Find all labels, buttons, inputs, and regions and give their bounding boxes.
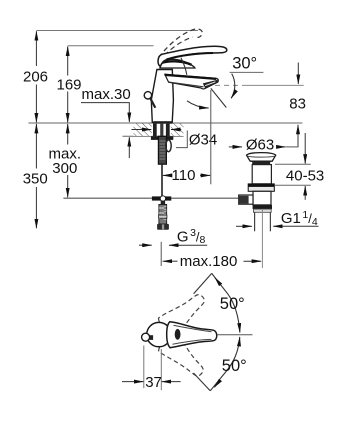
wire: O63 line tail to 83 line [286, 146, 298, 148]
leader O34 [176, 131, 187, 148]
G3/8 nut highlight [162, 224, 164, 229]
svg-text:50°: 50° [220, 295, 245, 313]
wire: spout level dashed line [215, 84, 242, 86]
dimension max.300 upper arrow at deck [67, 124, 69, 145]
drain upper body [252, 165, 271, 184]
dimension 169 upper arrow [67, 47, 69, 76]
lever plan top bevel line [174, 325, 212, 331]
handle body plan circle [147, 322, 171, 346]
drain collar dark top [248, 184, 274, 187]
wire: extension line top of lever (169 ref) [68, 45, 154, 47]
leader G3/8 left arrow [169, 244, 207, 246]
wire: aerator vertical reference (110 ref) [210, 90, 212, 184]
wire: 30deg slant direction line [211, 88, 227, 107]
dimension 110 right arrow [200, 174, 210, 176]
drain collar [248, 184, 274, 191]
drain lower body [253, 191, 271, 205]
tailpipe right wall [269, 212, 271, 231]
dimension max.300 lower arrow [67, 175, 69, 197]
svg-text:206: 206 [23, 69, 48, 86]
leader G1 1/4 right-pointing arrow [236, 225, 252, 227]
leader G1 1/4 left arrow [273, 225, 318, 227]
50deg upper apex arrow [215, 278, 221, 285]
drain side port dark [239, 196, 249, 204]
handle lever plan [167, 322, 217, 348]
hose loop [166, 140, 171, 152]
dimension 206 upper arrow [35, 31, 37, 66]
braided hose texture [159, 206, 167, 220]
rod tee block [152, 196, 171, 200]
svg-text:37: 37 [145, 374, 162, 391]
drain side port [239, 195, 253, 204]
pop-up knob stem [150, 98, 155, 108]
wire: 30deg label underline [230, 71, 264, 73]
dimension arrow hole left (O34) [132, 129, 152, 131]
svg-text:Ø34: Ø34 [189, 131, 217, 148]
dimension O63 right arrow [278, 146, 286, 148]
dimension arrow hole right (O34) [171, 129, 181, 131]
svg-text:max.180: max.180 [180, 253, 238, 270]
dimension 40-53 lower arrow [304, 186, 306, 200]
aerator [203, 80, 219, 89]
50deg lower arc to axis with arrow [210, 337, 240, 391]
wire: 40-53 upper extension line [275, 163, 311, 165]
dashed lever rotated down 48deg [156, 330, 211, 383]
flow arc arrow [187, 101, 209, 108]
dimension O63 left arrow [229, 146, 242, 148]
shank thread lines [160, 141, 166, 159]
svg-text:G11/4: G11/4 [281, 209, 318, 228]
horizontal rod left [63, 197, 151, 199]
50deg lower leg along dashed lever [194, 373, 211, 391]
braided hose [159, 205, 167, 225]
drain flange shadow band [252, 161, 270, 164]
svg-text:110: 110 [172, 167, 196, 184]
drain coupling ring dark [253, 205, 272, 209]
dimension 83 lower arrow [297, 125, 299, 148]
lever back knob dark edge [158, 56, 159, 65]
threaded shank [158, 136, 166, 164]
wire: swivel axis line [217, 334, 253, 336]
dimension 37 left arrow [122, 381, 143, 383]
dimension 350 upper arrow at deck [35, 124, 37, 169]
dimension 206 lower arrow [35, 85, 37, 123]
svg-text:max.30: max.30 [82, 86, 131, 103]
drain centerline [261, 209, 263, 268]
deck top line [28, 122, 302, 124]
drain coupling ring light [253, 209, 271, 212]
hose neck below tee [161, 201, 165, 205]
lever plan bottom bevel line [173, 339, 212, 344]
wire: faucet centerline tick [160, 242, 162, 266]
faucet body column [151, 70, 173, 123]
50deg upper arc to axis with arrow [212, 273, 240, 332]
leader max.30 with down arrow to deck [81, 103, 129, 122]
svg-text:G3/8: G3/8 [177, 227, 206, 246]
svg-text:Ø63: Ø63 [246, 137, 274, 154]
drain flange [247, 153, 276, 162]
50deg upper leg along dashed lever [194, 273, 212, 293]
spout wedge [165, 74, 219, 89]
wire: extension line top of raised handle (206 ref) [36, 30, 198, 32]
dimension 83 upper arrow [297, 63, 299, 85]
svg-text:169: 169 [57, 77, 82, 94]
deck hatch left of hole [134, 124, 152, 136]
horizontal rod right [171, 197, 239, 199]
dimension max.30 lower arrow below deck [128, 137, 130, 158]
deck hatch right of hole [171, 124, 184, 136]
dimension max.180 left arrow [163, 260, 178, 262]
dimension 350 lower arrow [35, 187, 37, 228]
50deg lower apex arrow [214, 380, 220, 387]
svg-text:30°: 30° [232, 54, 257, 72]
dimension 40-53 upper arrow [304, 133, 306, 164]
dimension 110 left arrow [163, 174, 171, 176]
deck bottom line [123, 135, 184, 137]
aerator glint [205, 82, 215, 86]
leader G3/8 right-pointing arrow [139, 244, 152, 246]
rod tee ball [160, 196, 165, 201]
pop-up knob [144, 92, 151, 99]
svg-text:300: 300 [52, 160, 77, 177]
dimension max.180 right arrow [244, 260, 262, 262]
wire: 37 right extension line [160, 349, 162, 390]
locknut below deck [151, 136, 173, 140]
knob stem plan [150, 335, 154, 340]
shank center stud in hole [160, 124, 163, 137]
svg-text:350: 350 [23, 171, 48, 188]
drain flange inner line [248, 155, 275, 158]
dashed raised handle inner line [165, 37, 193, 56]
shank left wall in hole [153, 124, 157, 137]
wire: spout level line [242, 84, 304, 86]
faucet lever underside shade [167, 53, 214, 59]
faucet lever [158, 46, 227, 66]
dashed lever rotated up 48deg [156, 287, 211, 340]
wire: 37 left extension line [143, 346, 145, 389]
faucet dome shadow band [161, 61, 192, 65]
knob plan circle [142, 333, 150, 341]
svg-text:83: 83 [289, 96, 306, 113]
base bottom dark band [153, 121, 172, 124]
faucet dome cap [160, 59, 195, 68]
shank right wall in hole [166, 124, 170, 137]
spout underside line [169, 82, 204, 87]
svg-text:50°: 50° [222, 357, 247, 375]
dimension 37 right arrow [162, 381, 181, 383]
neck junction line [181, 58, 187, 75]
pop-up vertical rod [161, 164, 163, 196]
dimension 169 lower arrow [67, 92, 69, 123]
G3/8 nut [157, 224, 169, 230]
arc 30deg with arrow [231, 74, 235, 99]
spout top shadow line [165, 75, 217, 79]
svg-text:40-53: 40-53 [286, 167, 324, 184]
wire: 40-53 lower extension line [275, 184, 311, 186]
lever plan dark oval [175, 329, 181, 340]
dashed raised handle outline [159, 29, 203, 57]
tailpipe left wall [254, 212, 256, 231]
hose band [159, 215, 167, 218]
